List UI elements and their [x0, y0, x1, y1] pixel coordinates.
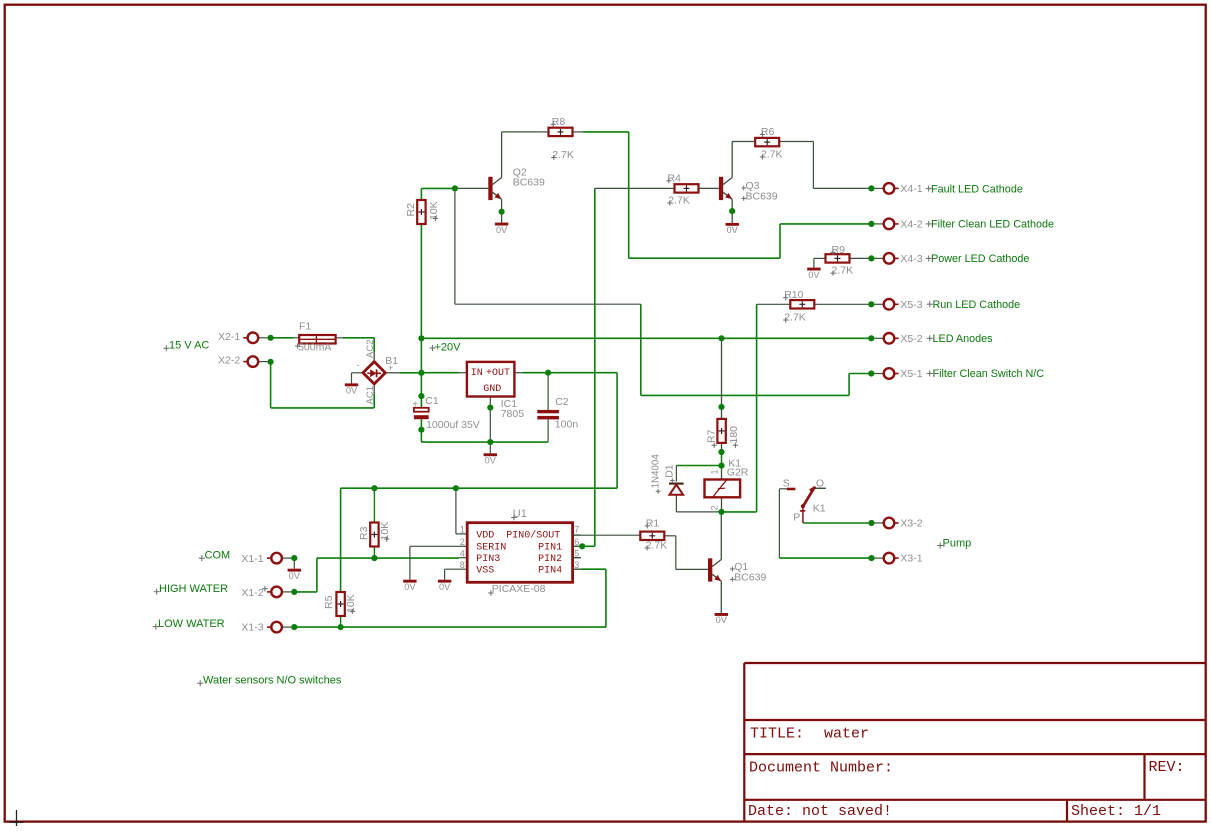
svg-text:R10: R10 — [784, 289, 803, 301]
svg-text:G2R: G2R — [727, 467, 749, 479]
svg-text:C2: C2 — [555, 396, 569, 408]
svg-text:+OUT: +OUT — [486, 368, 510, 379]
svg-text:7: 7 — [574, 525, 579, 535]
svg-text:2: 2 — [460, 537, 465, 547]
svg-text:X1-2: X1-2 — [241, 587, 263, 599]
svg-text:10K: 10K — [379, 522, 391, 541]
svg-text:0V: 0V — [485, 456, 497, 466]
svg-text:10K: 10K — [428, 201, 440, 220]
svg-text:COM: COM — [205, 549, 231, 561]
svg-text:X2-2: X2-2 — [218, 355, 240, 367]
svg-text:BC639: BC639 — [746, 191, 778, 203]
svg-text:0V: 0V — [727, 225, 739, 235]
svg-text:Fault LED Cathode: Fault LED Cathode — [931, 183, 1023, 195]
svg-text:PICAXE-08: PICAXE-08 — [492, 583, 546, 595]
svg-text:+20V: +20V — [435, 341, 462, 353]
svg-text:2.7K: 2.7K — [761, 149, 783, 161]
svg-text:BC639: BC639 — [734, 572, 766, 584]
svg-text:R7: R7 — [706, 429, 718, 443]
svg-text:D1: D1 — [664, 464, 676, 478]
svg-text:Filter Clean Switch N/C: Filter Clean Switch N/C — [933, 368, 1045, 380]
svg-text:O: O — [816, 477, 824, 489]
svg-text:Filter Clean LED Cathode: Filter Clean LED Cathode — [931, 219, 1054, 231]
svg-text:2: 2 — [710, 505, 720, 510]
svg-text:X3-2: X3-2 — [900, 518, 922, 530]
svg-text:180: 180 — [728, 426, 740, 444]
svg-text:R3: R3 — [358, 526, 370, 540]
svg-text:R8: R8 — [552, 116, 566, 128]
svg-text:X4-1: X4-1 — [900, 183, 922, 195]
svg-text:R4: R4 — [667, 172, 681, 184]
svg-text:HIGH WATER: HIGH WATER — [159, 583, 228, 595]
svg-text:2.7K: 2.7K — [552, 149, 574, 161]
svg-text:1000uf 35V: 1000uf 35V — [426, 419, 480, 431]
svg-text:AC1: AC1 — [365, 386, 376, 404]
svg-text:X5-2: X5-2 — [900, 333, 922, 345]
svg-text:K1: K1 — [813, 502, 826, 514]
svg-text:5: 5 — [574, 548, 579, 558]
svg-text:2.7K: 2.7K — [646, 540, 668, 552]
svg-text:REV:: REV: — [1149, 759, 1185, 776]
svg-text:LOW WATER: LOW WATER — [158, 618, 225, 630]
svg-text:Water sensors N/O switches: Water sensors N/O switches — [203, 675, 342, 687]
svg-text:VDD: VDD — [476, 530, 494, 541]
svg-text:X2-1: X2-1 — [218, 331, 240, 343]
svg-text:Power LED Cathode: Power LED Cathode — [931, 253, 1029, 265]
svg-text:2.7K: 2.7K — [784, 312, 806, 324]
svg-text:PIN0/SOUT: PIN0/SOUT — [506, 529, 560, 541]
svg-text:VSS: VSS — [476, 565, 494, 576]
svg-text:0V: 0V — [439, 582, 451, 592]
svg-text:Pump: Pump — [943, 538, 972, 550]
svg-text:PIN2: PIN2 — [538, 554, 562, 565]
svg-text:F1: F1 — [299, 321, 311, 333]
svg-text:X4-2: X4-2 — [900, 219, 922, 231]
svg-text:0V: 0V — [808, 270, 820, 280]
svg-text:P: P — [793, 512, 800, 524]
svg-text:0V: 0V — [496, 225, 508, 235]
svg-text:X1-3: X1-3 — [241, 622, 263, 634]
svg-text:R9: R9 — [832, 244, 846, 256]
svg-text:U1: U1 — [513, 508, 527, 520]
svg-text:water: water — [824, 726, 869, 743]
svg-text:500mA: 500mA — [298, 341, 331, 353]
svg-text:1: 1 — [710, 469, 720, 474]
svg-text:R6: R6 — [761, 126, 775, 138]
svg-text:IN: IN — [471, 368, 483, 379]
svg-text:LED Anodes: LED Anodes — [933, 333, 994, 345]
svg-text:AC2: AC2 — [365, 340, 376, 358]
svg-text:GND: GND — [483, 384, 501, 395]
svg-text:1N4004: 1N4004 — [650, 454, 661, 489]
svg-text:PIN3: PIN3 — [476, 554, 500, 565]
svg-text:3: 3 — [574, 560, 579, 570]
svg-text:BC639: BC639 — [513, 177, 545, 189]
svg-text:X5-3: X5-3 — [900, 299, 922, 311]
svg-text:TITLE:: TITLE: — [750, 726, 804, 743]
svg-text:0V: 0V — [716, 615, 728, 625]
svg-text:Document Number:: Document Number: — [749, 759, 893, 776]
svg-text:0V: 0V — [404, 582, 416, 592]
svg-text:+: + — [412, 399, 418, 410]
svg-text:2.7K: 2.7K — [668, 195, 690, 207]
svg-text:10K: 10K — [345, 594, 357, 613]
svg-text:Date: not saved!: Date: not saved! — [748, 803, 892, 820]
svg-text:R2: R2 — [405, 203, 417, 217]
svg-text:Run LED Cathode: Run LED Cathode — [933, 299, 1021, 311]
svg-text:6: 6 — [574, 537, 579, 547]
svg-text:100n: 100n — [555, 418, 579, 430]
svg-text:SERIN: SERIN — [476, 543, 506, 554]
svg-text:-: - — [356, 360, 359, 370]
svg-text:X4-3: X4-3 — [900, 253, 922, 265]
svg-text:PIN4: PIN4 — [538, 565, 562, 576]
svg-text:R5: R5 — [323, 595, 335, 609]
svg-text:X1-1: X1-1 — [241, 553, 263, 565]
svg-text:+: + — [388, 363, 393, 373]
svg-text:X3-1: X3-1 — [900, 553, 922, 565]
svg-text:2.7K: 2.7K — [832, 265, 854, 277]
svg-text:R1: R1 — [646, 517, 660, 529]
svg-text:1: 1 — [460, 525, 465, 535]
svg-text:C1: C1 — [425, 395, 439, 407]
svg-text:S: S — [783, 478, 790, 490]
svg-text:0V: 0V — [289, 571, 301, 581]
svg-text:4: 4 — [460, 548, 465, 558]
svg-text:8: 8 — [460, 560, 465, 570]
svg-text:7805: 7805 — [501, 408, 525, 420]
svg-text:Sheet: 1/1: Sheet: 1/1 — [1071, 803, 1161, 820]
svg-text:PIN1: PIN1 — [538, 543, 562, 554]
svg-text:15 V AC: 15 V AC — [169, 340, 209, 352]
svg-text:0V: 0V — [346, 386, 358, 396]
svg-text:X5-1: X5-1 — [900, 368, 922, 380]
